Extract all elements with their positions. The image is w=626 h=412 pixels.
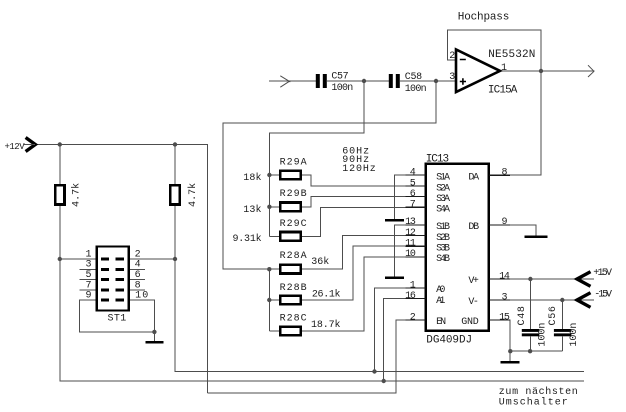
svg-text:R28C: R28C — [280, 313, 307, 324]
svg-text:NE5532N: NE5532N — [488, 49, 535, 61]
svg-text:A1: A1 — [436, 296, 445, 307]
svg-text:15: 15 — [499, 312, 510, 323]
svg-text:-15V: -15V — [594, 290, 612, 301]
svg-text:4.7k: 4.7k — [70, 183, 82, 207]
svg-text:S2B: S2B — [436, 233, 450, 244]
svg-text:1: 1 — [410, 280, 416, 291]
svg-text:DB: DB — [468, 222, 479, 233]
svg-text:Umschalter: Umschalter — [499, 396, 568, 408]
svg-text:36k: 36k — [311, 256, 329, 268]
svg-text:V+: V+ — [468, 276, 479, 287]
svg-text:100n: 100n — [569, 323, 580, 347]
svg-text:10: 10 — [405, 249, 416, 260]
svg-text:S4A: S4A — [436, 205, 450, 216]
svg-text:120Hz: 120Hz — [342, 164, 376, 175]
svg-text:100n: 100n — [331, 83, 353, 94]
svg-text:100n: 100n — [405, 84, 427, 95]
svg-text:3: 3 — [449, 72, 455, 83]
svg-text:S2A: S2A — [436, 183, 450, 194]
svg-text:S3B: S3B — [436, 244, 450, 255]
svg-text:9: 9 — [501, 217, 507, 228]
svg-text:S4B: S4B — [436, 254, 450, 265]
svg-text:DG409DJ: DG409DJ — [426, 335, 472, 347]
svg-text:26.1k: 26.1k — [312, 288, 341, 300]
svg-text:18.7k: 18.7k — [311, 319, 341, 331]
svg-text:Hochpass: Hochpass — [458, 11, 510, 23]
svg-text:A0: A0 — [436, 285, 445, 296]
svg-text:18k: 18k — [243, 172, 261, 184]
svg-text:13k: 13k — [243, 204, 261, 216]
svg-text:R28B: R28B — [280, 283, 307, 294]
svg-text:16: 16 — [405, 291, 416, 302]
svg-text:12: 12 — [405, 228, 416, 239]
svg-text:9.31k: 9.31k — [233, 233, 262, 245]
svg-text:2: 2 — [449, 51, 455, 62]
svg-text:R29C: R29C — [280, 219, 307, 230]
svg-text:S1A: S1A — [436, 172, 450, 183]
svg-text:5: 5 — [410, 178, 416, 189]
svg-text:C56: C56 — [548, 306, 559, 325]
svg-text:8: 8 — [501, 168, 507, 179]
svg-text:IC15A: IC15A — [488, 85, 518, 97]
svg-text:14: 14 — [499, 271, 510, 282]
svg-text:C48: C48 — [517, 306, 528, 325]
svg-text:DA: DA — [468, 172, 479, 183]
svg-text:EN: EN — [436, 317, 446, 328]
svg-text:4: 4 — [410, 167, 416, 178]
svg-text:11: 11 — [405, 239, 416, 250]
svg-text:+12V: +12V — [5, 142, 26, 152]
svg-text:C57: C57 — [331, 71, 348, 82]
svg-text:6: 6 — [410, 189, 416, 200]
svg-text:4.7k: 4.7k — [187, 183, 199, 207]
svg-text:zum nächsten: zum nächsten — [499, 386, 578, 398]
svg-text:2: 2 — [410, 312, 416, 323]
svg-text:GND: GND — [461, 317, 479, 328]
svg-text:V-: V- — [468, 297, 479, 308]
svg-text:3: 3 — [501, 292, 507, 303]
svg-text:R28A: R28A — [280, 251, 307, 262]
svg-text:C58: C58 — [405, 72, 422, 83]
svg-text:R29A: R29A — [280, 157, 307, 168]
svg-text:1: 1 — [501, 63, 507, 74]
svg-text:S3A: S3A — [436, 194, 450, 205]
svg-text:R29B: R29B — [280, 189, 307, 200]
svg-text:10: 10 — [135, 291, 148, 302]
svg-text:9: 9 — [85, 291, 91, 302]
svg-text:S1B: S1B — [436, 222, 450, 233]
svg-text:7: 7 — [410, 200, 416, 211]
svg-text:100n: 100n — [538, 323, 549, 347]
svg-text:ST1: ST1 — [108, 313, 127, 324]
svg-text:+15V: +15V — [593, 268, 612, 279]
svg-text:IC13: IC13 — [426, 154, 449, 166]
svg-text:13: 13 — [405, 217, 416, 228]
